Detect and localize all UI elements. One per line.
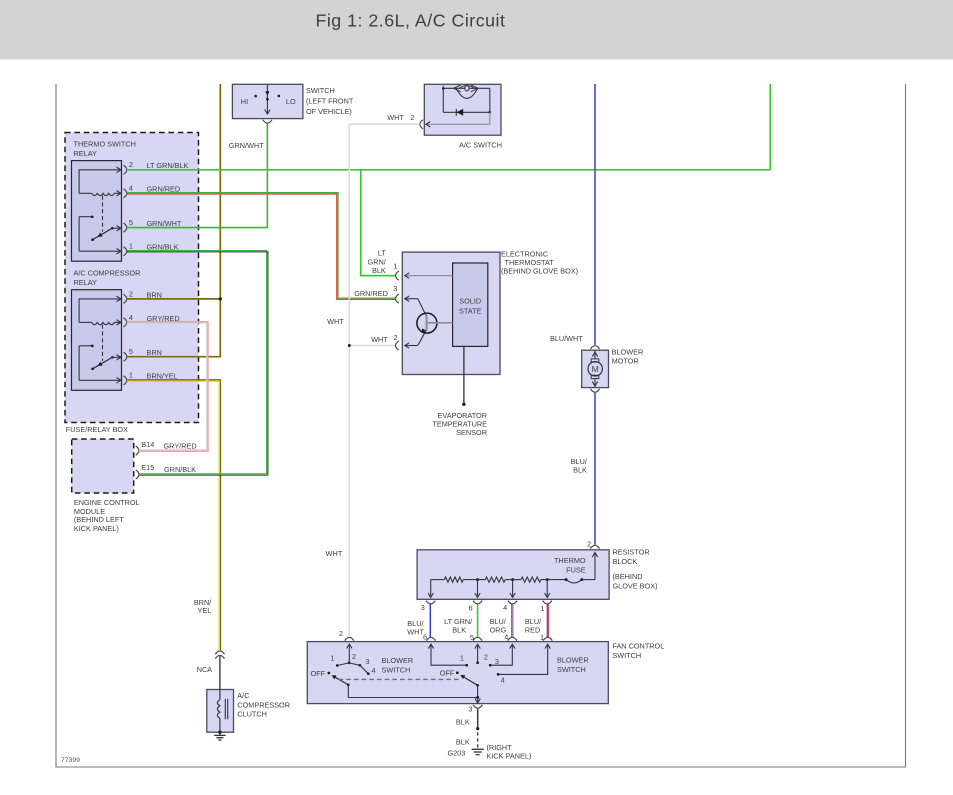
svg-text:5: 5 xyxy=(129,347,133,356)
svg-text:BLOWER: BLOWER xyxy=(612,347,644,356)
svg-text:3: 3 xyxy=(495,657,499,666)
svg-text:G203: G203 xyxy=(447,748,465,757)
svg-text:SWITCH: SWITCH xyxy=(557,665,586,674)
blower switch left arm xyxy=(332,675,350,697)
fan control switch S3 xyxy=(307,641,664,703)
svg-text:SWITCH: SWITCH xyxy=(382,665,411,674)
svg-text:BRN: BRN xyxy=(147,348,162,357)
svg-text:NCA: NCA xyxy=(197,665,213,674)
evaporator temperature sensor xyxy=(432,346,487,436)
svg-text:1: 1 xyxy=(393,262,397,271)
engine control module U1 xyxy=(72,439,197,533)
svg-text:LO: LO xyxy=(286,97,296,106)
transistor Q1 inside thermostat xyxy=(417,313,453,333)
svg-text:FAN CONTROL: FAN CONTROL xyxy=(612,641,664,650)
svg-text:2: 2 xyxy=(352,652,356,661)
blower switch right half pin 1 lead xyxy=(497,633,589,685)
svg-text:GLOVE BOX): GLOVE BOX) xyxy=(613,581,658,590)
svg-text:3: 3 xyxy=(393,284,397,293)
wire BLU/RED resistor to switch pin 1 xyxy=(525,604,549,637)
svg-text:SOLID: SOLID xyxy=(459,297,481,306)
svg-text:RED: RED xyxy=(525,626,540,635)
svg-text:6: 6 xyxy=(468,603,472,612)
svg-text:4: 4 xyxy=(129,184,133,193)
svg-text:GRY/RED: GRY/RED xyxy=(164,442,197,451)
wire GRN/RED relay4 to thermostat pin 3 xyxy=(127,193,396,300)
thermostat pin 3 xyxy=(354,284,426,317)
wire WHT from A/C switch pin 2 down to fan control switch xyxy=(326,124,420,637)
wire BRN feed from top with junction xyxy=(127,84,222,357)
svg-text:BLOCK: BLOCK xyxy=(613,557,638,566)
svg-text:A/C COMPRESSOR: A/C COMPRESSOR xyxy=(74,269,141,278)
fan switch output to pin 3 xyxy=(348,696,482,713)
svg-text:5: 5 xyxy=(129,218,133,227)
svg-text:OF VEHICLE): OF VEHICLE) xyxy=(306,107,352,116)
fuse/relay box xyxy=(65,133,199,434)
svg-text:A/C SWITCH: A/C SWITCH xyxy=(459,140,502,149)
svg-text:4: 4 xyxy=(504,632,508,641)
svg-text:GRN/WHT: GRN/WHT xyxy=(147,219,182,228)
relay K1 thermo switch relay xyxy=(72,140,189,262)
blower motor M1 xyxy=(582,346,644,393)
svg-text:RELAY: RELAY xyxy=(74,149,98,158)
svg-text:6: 6 xyxy=(423,632,427,641)
blower switch right half pin 5 lead xyxy=(470,633,488,664)
svg-text:BLK: BLK xyxy=(452,626,466,635)
electronic thermostat U2 (behind glove box) xyxy=(402,249,578,374)
svg-text:4: 4 xyxy=(503,603,507,612)
wire BLU/WHT from top to blower motor xyxy=(550,84,595,345)
switch S1 HI/LO (left front of vehicle) xyxy=(232,84,353,123)
svg-text:4: 4 xyxy=(372,666,376,675)
lamp inside A/C switch xyxy=(442,85,490,98)
svg-text:WHT: WHT xyxy=(371,335,388,344)
svg-text:BLOWER: BLOWER xyxy=(382,656,414,665)
svg-text:KICK PANEL): KICK PANEL) xyxy=(74,524,119,533)
svg-text:2: 2 xyxy=(410,113,414,122)
svg-text:RELAY: RELAY xyxy=(74,278,98,287)
ground G203 (right kick panel) xyxy=(447,743,531,761)
svg-text:KICK PANEL): KICK PANEL) xyxy=(487,752,532,761)
blower switch right arm xyxy=(440,669,479,698)
svg-text:GRN/WHT: GRN/WHT xyxy=(229,141,264,150)
svg-text:3: 3 xyxy=(468,704,472,713)
svg-text:BLK: BLK xyxy=(372,266,386,275)
resistor block pin 3 tap xyxy=(421,580,436,612)
svg-text:(BEHIND: (BEHIND xyxy=(613,572,643,581)
svg-text:HI: HI xyxy=(241,97,248,106)
svg-text:B14: B14 xyxy=(141,440,154,449)
svg-text:2: 2 xyxy=(484,653,488,662)
svg-text:COMPRESSOR: COMPRESSOR xyxy=(237,700,290,709)
svg-text:A/C: A/C xyxy=(237,691,249,700)
svg-text:LT GRN/BLK: LT GRN/BLK xyxy=(147,161,189,170)
svg-text:BLU/WHT: BLU/WHT xyxy=(550,334,583,343)
wire LT GRN/BLK bus with branch to thermostat pin 1 xyxy=(127,84,770,276)
svg-text:RESISTOR: RESISTOR xyxy=(613,548,650,557)
blower switch right half pin 6 lead xyxy=(423,632,468,666)
svg-text:1: 1 xyxy=(460,653,464,662)
wire LT GRN/BLK resistor to switch pin 5 xyxy=(444,604,478,637)
svg-text:YEL: YEL xyxy=(198,606,212,615)
svg-text:3: 3 xyxy=(421,603,425,612)
svg-text:(BEHIND LEFT: (BEHIND LEFT xyxy=(74,515,124,524)
svg-text:STATE: STATE xyxy=(459,306,482,315)
svg-text:WHT: WHT xyxy=(327,317,344,326)
svg-text:1: 1 xyxy=(540,604,544,613)
svg-text:E15: E15 xyxy=(141,463,154,472)
svg-text:SWITCH: SWITCH xyxy=(612,651,641,660)
wire GRN/BLK relay1 to ECM E15 xyxy=(127,251,268,476)
svg-text:2: 2 xyxy=(587,539,591,548)
svg-text:FUSE: FUSE xyxy=(566,565,586,574)
svg-text:WHT: WHT xyxy=(387,113,404,122)
ground at clutch xyxy=(214,732,225,740)
svg-text:1: 1 xyxy=(129,371,133,380)
svg-text:BLK: BLK xyxy=(456,737,470,746)
svg-text:THERMO SWITCH: THERMO SWITCH xyxy=(74,140,136,149)
svg-text:Fig 1: 2.6L, A/C Circuit: Fig 1: 2.6L, A/C Circuit xyxy=(316,11,506,31)
svg-text:FUSE/RELAY BOX: FUSE/RELAY BOX xyxy=(66,425,128,434)
svg-text:WHT: WHT xyxy=(407,628,424,637)
wire BLU/BLK from motor to resistor block pin 2 xyxy=(571,393,595,545)
svg-text:BLU/: BLU/ xyxy=(525,617,542,626)
resistor chain R1-R3 with thermo fuse F1 xyxy=(431,577,595,583)
svg-text:SWITCH: SWITCH xyxy=(306,86,335,95)
mechanical link dashed xyxy=(339,678,461,680)
inline connector on clutch feed xyxy=(215,651,224,659)
resistor block (behind glove box) xyxy=(417,548,657,600)
svg-text:77399: 77399 xyxy=(61,757,80,764)
svg-text:2: 2 xyxy=(129,289,133,298)
wire NCA to clutch xyxy=(197,656,220,690)
svg-text:LT: LT xyxy=(378,249,387,258)
svg-text:2: 2 xyxy=(129,160,133,169)
thermostat pin 2 xyxy=(371,329,427,350)
svg-text:(LEFT FRONT: (LEFT FRONT xyxy=(306,97,354,106)
resistor block pin 1 tap xyxy=(540,580,551,614)
svg-text:OFF: OFF xyxy=(440,669,455,678)
blower switch left half pin 2 xyxy=(339,629,354,663)
wire BLU/WHT resistor to switch pin 6 xyxy=(407,604,430,637)
wire BLU/ORG resistor to switch pin 4 xyxy=(490,604,514,637)
svg-text:1: 1 xyxy=(331,654,335,663)
svg-text:BLU/: BLU/ xyxy=(490,617,507,626)
svg-text:BLK: BLK xyxy=(573,466,587,475)
svg-text:1: 1 xyxy=(540,633,544,642)
blower switch right half pin 4 lead xyxy=(489,632,517,666)
svg-text:BLOWER: BLOWER xyxy=(557,656,589,665)
svg-text:BLK: BLK xyxy=(456,717,470,726)
wire GRN/WHT from HI-LO switch to relay pin 5 xyxy=(127,124,268,228)
svg-text:BLU/: BLU/ xyxy=(407,619,424,628)
wire BRN/YEL to compressor clutch xyxy=(127,380,221,650)
svg-text:5: 5 xyxy=(470,633,474,642)
svg-text:GRN/BLK: GRN/BLK xyxy=(164,465,196,474)
svg-text:GRN/RED: GRN/RED xyxy=(354,289,388,298)
svg-text:(BEHIND GLOVE BOX): (BEHIND GLOVE BOX) xyxy=(501,266,578,275)
title bar xyxy=(0,0,953,60)
A/C switch pin 2 internal lead xyxy=(387,112,502,149)
resistor block pin 4 tap xyxy=(503,580,517,612)
resistor block pin 6 tap xyxy=(468,580,482,613)
svg-text:2: 2 xyxy=(339,629,343,638)
svg-text:1: 1 xyxy=(129,242,133,251)
svg-text:(RIGHT: (RIGHT xyxy=(487,743,513,752)
svg-text:BRN: BRN xyxy=(147,290,162,299)
svg-text:GRN/: GRN/ xyxy=(368,257,387,266)
svg-text:THERMO: THERMO xyxy=(554,556,586,565)
svg-text:M: M xyxy=(592,364,599,374)
svg-text:SENSOR: SENSOR xyxy=(456,428,487,437)
resistor block pin 2 (top) xyxy=(587,539,600,579)
svg-text:CLUTCH: CLUTCH xyxy=(237,710,267,719)
svg-text:3: 3 xyxy=(366,657,370,666)
relay K2 A/C compressor relay xyxy=(72,269,180,391)
svg-text:WHT: WHT xyxy=(326,549,343,558)
switch S2 A/C switch xyxy=(424,84,501,135)
svg-text:OFF: OFF xyxy=(311,669,326,678)
svg-text:MOTOR: MOTOR xyxy=(612,357,639,366)
svg-text:LT GRN/: LT GRN/ xyxy=(444,617,473,626)
drawing border frame xyxy=(56,84,906,767)
svg-text:2: 2 xyxy=(394,333,398,342)
svg-text:4: 4 xyxy=(129,313,133,322)
wire GRY/RED relay4 to ECM B14 xyxy=(127,322,208,452)
svg-text:4: 4 xyxy=(501,676,505,685)
blower switch left rotary contacts xyxy=(311,652,414,678)
A/C compressor clutch L1 xyxy=(207,690,290,734)
wire BLK to ground G203 xyxy=(456,709,479,749)
thermostat pin 1 xyxy=(368,249,453,281)
diode inside A/C switch xyxy=(443,88,491,115)
